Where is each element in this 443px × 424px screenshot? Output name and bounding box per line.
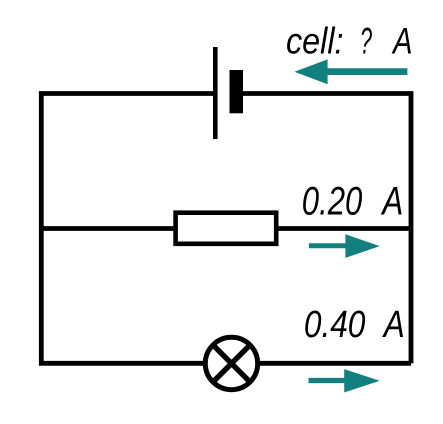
svg-text:0.40: 0.40 <box>304 303 366 345</box>
svg-text:0.20: 0.20 <box>302 180 363 224</box>
svg-text:A: A <box>391 20 412 62</box>
svg-text:?: ? <box>360 20 372 62</box>
svg-text:A: A <box>381 180 404 224</box>
svg-text:A: A <box>382 303 405 345</box>
svg-text:cell:: cell: <box>286 20 344 62</box>
